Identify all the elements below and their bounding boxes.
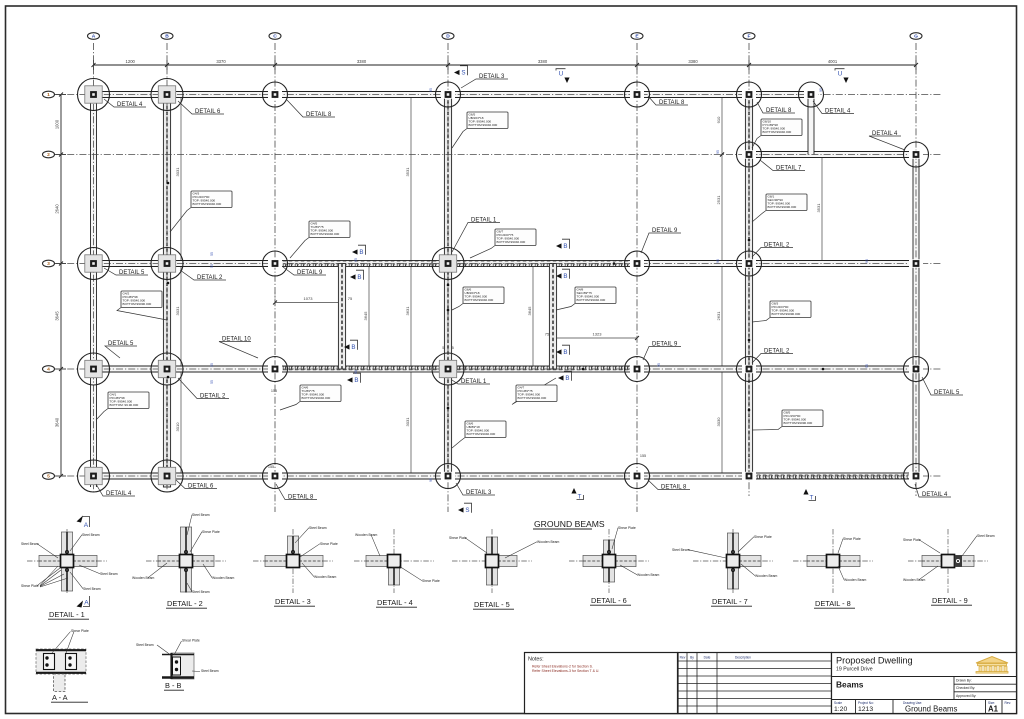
detail drawing DETAIL-6 xyxy=(569,560,649,562)
svg-text:3380: 3380 xyxy=(357,59,367,64)
svg-text:DETAIL 1: DETAIL 1 xyxy=(471,217,497,223)
svg-text:55: 55 xyxy=(210,380,214,384)
svg-text:Wooden Beam: Wooden Beam xyxy=(537,540,560,544)
title block xyxy=(832,653,1017,714)
svg-text:19 Purcell Drive: 19 Purcell Drive xyxy=(836,667,873,673)
bubble 2 xyxy=(55,154,66,156)
svg-text:By: By xyxy=(690,656,694,660)
svg-text:1073: 1073 xyxy=(304,296,314,301)
section flag B at (352,252) xyxy=(352,249,358,254)
column G3 xyxy=(909,259,923,267)
svg-text:Steel Beam: Steel Beam xyxy=(82,533,100,537)
svg-text:3380: 3380 xyxy=(688,59,698,64)
callout DETAIL 2 at (197,274.5) xyxy=(180,270,226,280)
column F5 xyxy=(742,472,756,480)
svg-text:DETAIL - 6: DETAIL - 6 xyxy=(591,596,627,605)
callout DETAIL 5 at (934,389.5) xyxy=(922,377,963,395)
svg-text:A: A xyxy=(92,34,96,40)
label box G6/7 xyxy=(470,246,495,259)
grid line A xyxy=(93,43,95,492)
svg-text:B: B xyxy=(354,377,358,384)
svg-text:2: 2 xyxy=(47,152,50,158)
svg-text:4001: 4001 xyxy=(828,59,838,64)
svg-text:DETAIL - 1: DETAIL - 1 xyxy=(49,610,85,619)
svg-text:2531: 2531 xyxy=(716,195,721,205)
svg-text:Notes:: Notes: xyxy=(528,657,544,663)
notes box xyxy=(525,653,678,714)
callout DETAIL 3 at (479,73.5) xyxy=(461,79,508,88)
grid line F xyxy=(748,43,750,496)
callout DETAIL 4 at (117,101.5) xyxy=(104,99,146,107)
svg-text:DETAIL 6: DETAIL 6 xyxy=(188,483,214,489)
svg-text:Scale: Scale xyxy=(834,701,842,705)
svg-text:95: 95 xyxy=(865,364,869,368)
svg-text:B: B xyxy=(359,249,363,256)
callout DETAIL 10 at (222,336.0) xyxy=(219,342,258,359)
svg-text:DETAIL 8: DETAIL 8 xyxy=(661,484,687,490)
section flag A top of detail 1 xyxy=(77,516,84,523)
svg-text:Shear Plate: Shear Plate xyxy=(618,526,636,530)
detail drawing DETAIL-9 xyxy=(908,560,988,562)
svg-text:Approved By:: Approved By: xyxy=(956,694,976,698)
svg-text:95: 95 xyxy=(819,88,823,92)
beam column B xyxy=(163,95,170,488)
beam stub x=342 rows 3-4 xyxy=(338,264,345,370)
svg-text:DETAIL 2: DETAIL 2 xyxy=(764,242,790,248)
svg-text:DETAIL - 5: DETAIL - 5 xyxy=(474,600,510,609)
revision table xyxy=(678,653,832,714)
column C3 xyxy=(268,259,282,267)
section flag B at (347,380) xyxy=(347,377,353,382)
svg-text:DETAIL 9: DETAIL 9 xyxy=(297,270,323,276)
svg-text:DETAIL 4: DETAIL 4 xyxy=(922,492,948,498)
svg-text:Wooden Beam: Wooden Beam xyxy=(755,574,778,578)
section flag B at (556,276) xyxy=(556,273,562,278)
column C4 xyxy=(268,365,282,373)
column F2 xyxy=(742,150,756,158)
svg-text:T: T xyxy=(578,494,582,501)
bubble 1 xyxy=(55,94,66,96)
bubble D xyxy=(442,33,454,40)
column G5 xyxy=(909,472,923,480)
company logo (gold temple) xyxy=(976,657,1008,674)
callout DETAIL 6 at (195,108.5) xyxy=(178,101,224,114)
column A1 xyxy=(85,86,102,103)
svg-text:BOTTOM:99090.000: BOTTOM:99090.000 xyxy=(784,421,813,425)
svg-text:B: B xyxy=(563,273,567,280)
svg-text:B: B xyxy=(565,375,569,382)
svg-text:1213: 1213 xyxy=(858,706,873,713)
bubble G xyxy=(910,33,922,40)
svg-text:S: S xyxy=(465,507,469,514)
svg-text:U: U xyxy=(838,71,842,78)
svg-text:BOTTOM:99040.000: BOTTOM:99040.000 xyxy=(311,232,340,236)
svg-text:BOTTOM:99090.000: BOTTOM:99090.000 xyxy=(768,205,797,209)
beam row 1 A to 811 xyxy=(87,92,811,98)
callout DETAIL 9 at (297,269.5) xyxy=(283,267,326,275)
svg-text:Shear Plate: Shear Plate xyxy=(843,537,861,541)
label box G4/7 xyxy=(512,378,556,405)
beam row 3 C to E hatched xyxy=(275,261,637,267)
beam row 4 E to G plain xyxy=(637,366,916,372)
callout DETAIL 4 at (106,490.5) xyxy=(96,484,135,496)
svg-text:3645: 3645 xyxy=(527,306,532,316)
svg-text:DETAIL 4: DETAIL 4 xyxy=(872,131,898,137)
svg-text:3645: 3645 xyxy=(363,311,368,321)
svg-text:95: 95 xyxy=(354,370,358,374)
svg-text:155: 155 xyxy=(640,454,646,458)
dimension line x=822 xyxy=(821,155,823,264)
callout DETAIL 6 at (188,483.0) xyxy=(176,480,217,489)
svg-text:B: B xyxy=(351,344,355,351)
grid line C xyxy=(274,43,276,512)
detail drawing DETAIL-2 xyxy=(146,560,226,562)
svg-text:Wooden Beam: Wooden Beam xyxy=(844,578,867,582)
svg-text:3: 3 xyxy=(47,261,50,267)
svg-text:3370: 3370 xyxy=(216,59,226,64)
svg-text:DETAIL 2: DETAIL 2 xyxy=(764,348,790,354)
svg-text:3031: 3031 xyxy=(405,417,410,427)
svg-text:DETAIL 10: DETAIL 10 xyxy=(222,336,251,342)
svg-text:DETAIL 1: DETAIL 1 xyxy=(461,379,487,385)
left dimension line xyxy=(60,95,62,477)
svg-text:Date: Date xyxy=(704,656,711,660)
svg-text:Steel Beam: Steel Beam xyxy=(21,542,39,546)
column G2 xyxy=(909,150,923,158)
svg-text:DETAIL - 7: DETAIL - 7 xyxy=(712,597,748,606)
svg-text:B: B xyxy=(563,243,567,250)
svg-text:4: 4 xyxy=(47,367,50,373)
svg-text:95: 95 xyxy=(429,478,433,482)
column B4 xyxy=(158,360,175,377)
svg-text:F: F xyxy=(748,34,751,40)
column F1 xyxy=(742,90,756,98)
svg-text:Proposed Dwelling: Proposed Dwelling xyxy=(836,656,913,666)
column D1 xyxy=(441,90,455,98)
svg-text:95: 95 xyxy=(429,88,433,92)
column 811-1 xyxy=(804,90,818,98)
svg-text:Description: Description xyxy=(735,656,751,660)
column B1 xyxy=(158,86,175,103)
svg-text:5: 5 xyxy=(47,474,50,480)
svg-text:1:20: 1:20 xyxy=(834,706,847,713)
svg-text:BOTTOM: 99.90.000: BOTTOM: 99.90.000 xyxy=(110,403,139,407)
svg-text:1200: 1200 xyxy=(126,59,136,64)
svg-text:Shear Plate: Shear Plate xyxy=(182,639,200,643)
svg-text:BOTTOM:99040.000: BOTTOM:99040.000 xyxy=(193,202,222,206)
svg-text:DETAIL 8: DETAIL 8 xyxy=(306,112,332,118)
svg-text:Wooden Beam: Wooden Beam xyxy=(903,578,926,582)
svg-text:B: B xyxy=(563,349,567,356)
svg-text:DETAIL 4: DETAIL 4 xyxy=(117,102,143,108)
svg-text:Steel Beam: Steel Beam xyxy=(83,587,101,591)
svg-text:Shear Plate: Shear Plate xyxy=(202,530,220,534)
svg-text:2640: 2640 xyxy=(55,204,60,214)
svg-text:3531: 3531 xyxy=(816,203,821,213)
svg-text:95: 95 xyxy=(716,259,720,263)
svg-text:155: 155 xyxy=(271,389,277,393)
svg-text:Shear Plate: Shear Plate xyxy=(21,584,39,588)
svg-text:3380: 3380 xyxy=(538,59,548,64)
svg-text:Steel Beam: Steel Beam xyxy=(136,643,154,647)
bubble A xyxy=(88,33,100,40)
svg-text:95: 95 xyxy=(657,363,661,367)
label box G8/5 xyxy=(752,427,782,431)
dimension line x=181 xyxy=(180,95,182,264)
callout DETAIL 4 at (872,130.5) xyxy=(869,136,905,150)
grid line 2 xyxy=(55,154,941,156)
top dimension line xyxy=(94,64,917,66)
detail drawing DETAIL-3 xyxy=(253,560,333,562)
detail 9 steel end plate xyxy=(955,555,963,567)
svg-text:BOTTOM:99040.000: BOTTOM:99040.000 xyxy=(302,396,331,400)
svg-text:DETAIL 8: DETAIL 8 xyxy=(288,494,314,500)
svg-text:Rev:: Rev: xyxy=(1005,701,1012,705)
label box G4/5 xyxy=(290,238,309,259)
column A4 xyxy=(85,360,102,377)
svg-text:B: B xyxy=(165,34,169,40)
svg-text:3030: 3030 xyxy=(716,417,721,427)
svg-text:DETAIL 2: DETAIL 2 xyxy=(197,275,223,281)
section flag U at (567,83) xyxy=(564,78,569,84)
callout DETAIL 8 at (766,107.5) xyxy=(757,102,795,113)
column C5 xyxy=(268,472,282,480)
callout DETAIL 4 at (825,108.0) xyxy=(813,101,854,114)
callout DETAIL 5 at (108,340.5) xyxy=(105,346,137,358)
column C1 xyxy=(268,90,282,98)
svg-text:3645: 3645 xyxy=(55,311,60,321)
svg-text:Shear Plate: Shear Plate xyxy=(422,579,440,583)
svg-text:Wooden Beam: Wooden Beam xyxy=(637,573,660,577)
label box G6/6 xyxy=(452,304,463,311)
svg-text:75: 75 xyxy=(348,296,353,301)
svg-text:BOTTOM:99040.000: BOTTOM:99040.000 xyxy=(469,123,498,127)
svg-text:55: 55 xyxy=(210,264,214,268)
svg-text:95: 95 xyxy=(354,258,358,262)
svg-text:95: 95 xyxy=(865,259,869,263)
svg-text:G: G xyxy=(914,34,918,40)
column D5 xyxy=(441,472,455,480)
svg-text:DETAIL 7: DETAIL 7 xyxy=(776,165,802,171)
bubble 3 xyxy=(55,263,66,265)
detail drawing DETAIL-8 xyxy=(793,560,873,562)
svg-text:A1: A1 xyxy=(988,705,999,714)
svg-text:55: 55 xyxy=(210,363,214,367)
column B3 xyxy=(158,255,175,272)
section flag U at (846,83) xyxy=(843,78,848,84)
svg-text:DETAIL - 2: DETAIL - 2 xyxy=(167,599,203,608)
dim 1323/75 xyxy=(553,337,637,339)
svg-text:T: T xyxy=(810,495,814,502)
label box G6/6 xyxy=(452,438,465,449)
svg-text:Shear Plate: Shear Plate xyxy=(449,536,467,540)
beam column G xyxy=(913,155,919,477)
svg-text:S: S xyxy=(461,69,465,76)
label box G8/3 xyxy=(752,318,770,323)
svg-text:Drawn By:: Drawn By: xyxy=(956,679,972,683)
grid line E xyxy=(636,43,638,512)
svg-text:Checked By:: Checked By: xyxy=(956,686,975,690)
svg-text:DETAIL 2: DETAIL 2 xyxy=(200,393,226,399)
svg-text:B: B xyxy=(357,274,361,281)
column E4 xyxy=(630,365,644,373)
svg-text:BOTTOM:99040.000: BOTTOM:99040.000 xyxy=(577,298,606,302)
svg-text:U: U xyxy=(559,71,563,78)
svg-text:Wooden Beam: Wooden Beam xyxy=(132,576,155,580)
svg-text:Steel Beam: Steel Beam xyxy=(672,548,690,552)
svg-text:3031: 3031 xyxy=(175,167,180,177)
column F3 xyxy=(742,259,756,267)
svg-text:DETAIL 4: DETAIL 4 xyxy=(825,108,851,114)
svg-text:A: A xyxy=(84,522,89,529)
label box G4/1 xyxy=(96,409,108,421)
beam row 5 A to G xyxy=(87,473,749,479)
svg-text:2631: 2631 xyxy=(716,311,721,321)
callout DETAIL 8 at (306,111.5) xyxy=(287,100,335,117)
callout DETAIL 4 at (922,491.5) xyxy=(915,484,951,497)
column D3 xyxy=(439,255,456,272)
label box G4/2 xyxy=(117,308,167,321)
callout DETAIL 8 at (661,484.0) xyxy=(648,480,690,490)
label box G8/10 xyxy=(752,136,761,149)
svg-text:910: 910 xyxy=(716,116,721,123)
section A-A drawing xyxy=(36,629,89,702)
svg-text:DETAIL - 3: DETAIL - 3 xyxy=(275,597,311,606)
svg-text:3031: 3031 xyxy=(175,306,180,316)
svg-text:Steel Beam: Steel Beam xyxy=(309,526,327,530)
bubble F xyxy=(743,33,755,40)
svg-text:DETAIL 9: DETAIL 9 xyxy=(652,228,678,234)
svg-text:55: 55 xyxy=(210,252,214,256)
svg-text:DETAIL 5: DETAIL 5 xyxy=(108,341,134,347)
grid line 3 xyxy=(55,263,941,265)
callout DETAIL 2 at (764,242.0) xyxy=(752,248,793,258)
svg-text:DETAIL 9: DETAIL 9 xyxy=(652,341,678,347)
section flag B at (350,277) xyxy=(350,274,356,279)
svg-text:Wooden Beam: Wooden Beam xyxy=(212,576,235,580)
dimension line x=369 xyxy=(368,264,370,370)
callout DETAIL 9 at (652,227.5) xyxy=(641,233,681,253)
svg-text:DETAIL 8: DETAIL 8 xyxy=(766,108,792,114)
detail drawing DETAIL-7 xyxy=(693,560,773,562)
beam stub x=553 rows 3-4 xyxy=(549,264,556,370)
dimension line x=722 xyxy=(721,95,723,155)
svg-text:Ground Beams: Ground Beams xyxy=(905,705,958,714)
svg-text:Project No:: Project No: xyxy=(858,701,874,705)
svg-text:DETAIL 5: DETAIL 5 xyxy=(119,270,145,276)
svg-text:Refer Sheet Elevations-3 for S: Refer Sheet Elevations-3 for Section T &… xyxy=(532,669,599,673)
beam stub x=811 rows 1-2 xyxy=(808,95,814,155)
section flag S at (458,510) xyxy=(458,507,464,512)
section B-B drawing xyxy=(136,639,219,691)
svg-text:DETAIL - 4: DETAIL - 4 xyxy=(377,598,413,607)
bubble E xyxy=(631,33,643,40)
beam row 3 E to G plain xyxy=(637,261,916,267)
section flag B at (556,246) xyxy=(556,243,562,248)
svg-text:A - A: A - A xyxy=(52,693,68,702)
grid line 1 xyxy=(55,94,941,96)
dim 1073/75 xyxy=(275,302,342,304)
shear plate leader fan detail 1 xyxy=(40,566,58,586)
detail drawing DETAIL-1 xyxy=(27,560,107,562)
section flag T at (806,489) xyxy=(803,489,808,495)
column E3 xyxy=(630,259,644,267)
bubble C xyxy=(269,33,281,40)
section flag B at (556,352) xyxy=(556,349,562,354)
svg-text:1: 1 xyxy=(47,92,50,98)
bubble 5 xyxy=(55,475,66,477)
beam row 3 A to C plain xyxy=(87,261,275,267)
grid line 5 xyxy=(55,475,941,477)
column B5 xyxy=(158,467,175,484)
beam column D xyxy=(444,95,451,477)
grid line B xyxy=(166,43,168,492)
beam column F xyxy=(745,95,752,477)
svg-text:Steel Beam: Steel Beam xyxy=(192,590,210,594)
svg-text:DETAIL 3: DETAIL 3 xyxy=(479,74,505,80)
column G4 xyxy=(909,365,923,373)
column F4 xyxy=(742,365,756,373)
svg-text:BOTTOM:99040.000: BOTTOM:99040.000 xyxy=(467,432,496,436)
section flag S at (454,72.5) xyxy=(454,70,460,75)
svg-text:3631: 3631 xyxy=(405,306,410,316)
svg-text:Steel Beam: Steel Beam xyxy=(201,669,219,673)
label box G4/3 xyxy=(170,208,191,233)
label box G8/1 xyxy=(752,211,766,223)
dimension line x=533 xyxy=(532,264,534,370)
beam row 4 C to E hatched xyxy=(275,366,637,372)
section flag B at (558,378) xyxy=(558,375,564,380)
svg-text:BOTTOM:99040.000: BOTTOM:99040.000 xyxy=(763,130,792,134)
label box G6/5 xyxy=(452,129,467,149)
svg-text:DETAIL - 9: DETAIL - 9 xyxy=(932,596,968,605)
section flag B at (344,347) xyxy=(344,344,350,349)
svg-text:3531: 3531 xyxy=(405,167,410,177)
callout DETAIL 1 at (461,378.5) xyxy=(452,380,490,384)
detail drawing DETAIL-5 xyxy=(452,560,532,562)
svg-text:Wooden Beam: Wooden Beam xyxy=(355,533,378,537)
label box G4/8 xyxy=(556,304,575,311)
beam row 4 A to C plain xyxy=(87,366,275,372)
callout DETAIL 3 at (466,489.5) xyxy=(456,483,495,495)
callout DETAIL 9 at (652,341.0) xyxy=(643,347,681,361)
label box G4/6 xyxy=(280,402,300,411)
svg-text:DETAIL 8: DETAIL 8 xyxy=(659,100,685,106)
svg-text:BOTTOM:99040.000: BOTTOM:99040.000 xyxy=(497,240,526,244)
svg-text:BOTTOM:99090.000: BOTTOM:99090.000 xyxy=(123,302,152,306)
callout DETAIL 8 at (659,99.5) xyxy=(648,96,688,105)
svg-text:Shear Plate: Shear Plate xyxy=(320,542,338,546)
section flag A bottom of detail 1 xyxy=(77,601,84,608)
column E5 xyxy=(630,472,644,480)
dimension line x=411 xyxy=(410,95,412,264)
svg-text:Beams: Beams xyxy=(836,680,864,690)
svg-text:DETAIL 6: DETAIL 6 xyxy=(195,109,221,115)
column A5 xyxy=(85,467,102,484)
svg-text:A: A xyxy=(84,600,89,607)
svg-text:Shear Plate: Shear Plate xyxy=(754,535,772,539)
grid line G xyxy=(915,43,917,496)
svg-text:C: C xyxy=(273,34,277,40)
callout DETAIL 5 at (119,269.5) xyxy=(104,268,148,275)
beam row 2 F to G xyxy=(749,152,916,158)
svg-text:DETAIL - 8: DETAIL - 8 xyxy=(815,599,851,608)
svg-text:Wooden Beam: Wooden Beam xyxy=(314,575,337,579)
svg-text:95: 95 xyxy=(716,150,720,154)
callout DETAIL 1 at (471,217.0) xyxy=(452,223,500,253)
callout DETAIL 8 at (288,494.0) xyxy=(276,484,317,500)
svg-text:BOTTOM:99040.000: BOTTOM:99040.000 xyxy=(465,298,494,302)
